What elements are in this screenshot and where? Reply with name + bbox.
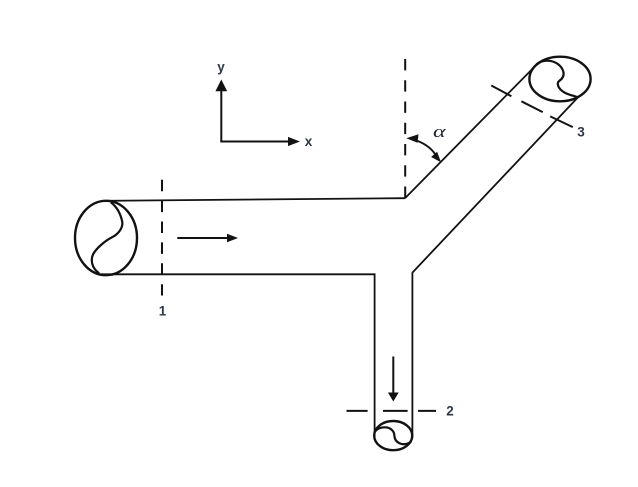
branch 3 lower-right wall <box>412 97 578 272</box>
pipe 1 top wall <box>106 198 405 201</box>
branch 3 upper-left wall <box>405 65 537 199</box>
pipe 2 right wall <box>411 272 413 438</box>
downward flow arrow <box>388 357 399 402</box>
section 2 dashed cut line <box>347 410 437 412</box>
svg-text:y: y <box>217 60 225 75</box>
inlet end cap ellipse (section 1 pipe) <box>75 201 137 275</box>
angle alpha arc with arrowheads <box>406 134 441 162</box>
outlet end cap ellipse (section 2 pipe) <box>374 421 412 450</box>
section 3 dashed cut line <box>491 86 573 128</box>
svg-text:2: 2 <box>446 404 454 419</box>
pipe 2 left wall <box>374 273 376 437</box>
inlet end cap seam S-curve <box>92 202 123 273</box>
svg-text:1: 1 <box>159 304 167 319</box>
outlet 2 end cap seam S-curve <box>375 427 411 444</box>
svg-text:x: x <box>305 134 313 149</box>
outlet end cap ellipse (section 3 pipe) <box>529 57 590 102</box>
svg-text:α: α <box>433 122 447 141</box>
section 1 dashed cut line <box>161 180 163 296</box>
inlet flow arrow <box>177 234 238 242</box>
x-axis arrow <box>220 137 300 146</box>
outlet 3 end cap seam S-curve <box>536 61 578 98</box>
svg-text:3: 3 <box>577 125 585 140</box>
y-axis arrow <box>215 80 227 142</box>
junction vertical dashed reference line <box>404 59 406 198</box>
pipe 1 bottom wall <box>101 273 375 275</box>
